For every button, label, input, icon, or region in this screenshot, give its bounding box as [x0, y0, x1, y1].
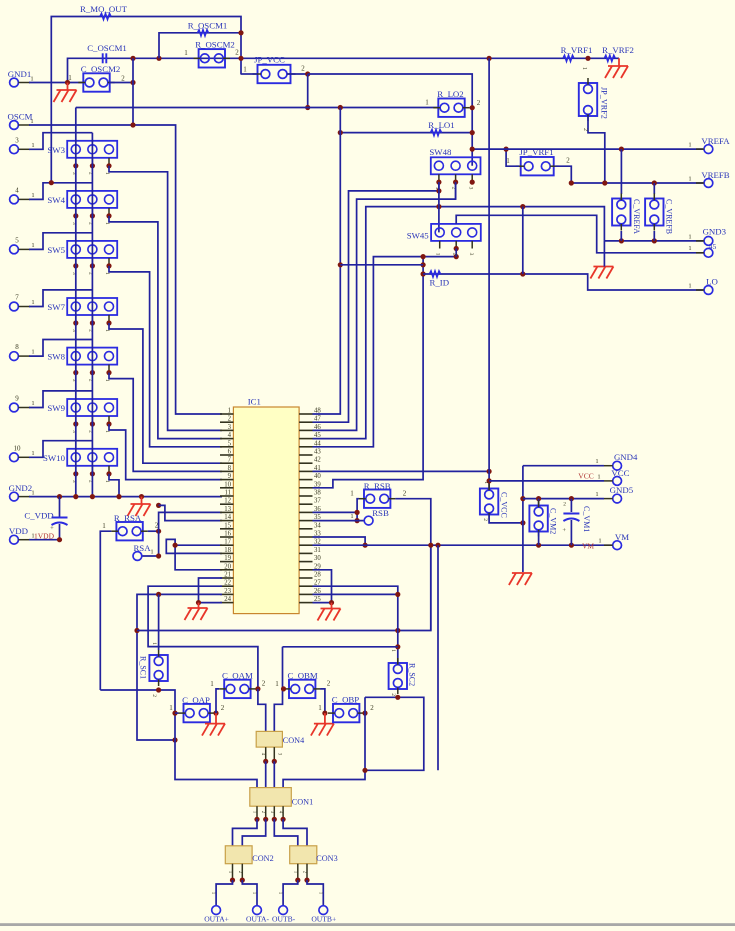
wire C_OSCM2 pin2 — [109, 82, 133, 84]
label CON2 pin marks — [227, 871, 242, 874]
wire VREFA net — [472, 148, 703, 150]
resistor C_OSCM2 — [68, 64, 125, 92]
label CON1 pin marks — [252, 811, 283, 814]
svg-text:VDD: VDD — [9, 526, 28, 536]
svg-text:1: 1 — [688, 245, 691, 252]
wire SW9 pad stubs — [76, 416, 109, 424]
svg-text:13: 13 — [224, 506, 231, 513]
svg-text:SW3: SW3 — [47, 145, 65, 155]
wire OUTB+ net — [307, 880, 323, 906]
pin 3 — [10, 136, 35, 153]
svg-text:2: 2 — [403, 490, 407, 498]
capacitor C_VM2 — [529, 499, 557, 546]
svg-text:2: 2 — [566, 157, 570, 165]
wire SW pad2 bus — [91, 133, 93, 497]
pin OSCM — [8, 112, 34, 130]
svg-text:1: 1 — [597, 474, 600, 481]
node pin41 junction — [487, 469, 492, 474]
capacitor C_VCC — [480, 481, 509, 521]
wire SW45 pad2 up link — [456, 215, 703, 253]
svg-text:OUTB-: OUTB- — [272, 915, 296, 924]
svg-text:1: 1 — [350, 513, 353, 520]
svg-text:1: 1 — [169, 704, 173, 712]
resistor R_MO_OUT — [80, 4, 128, 20]
svg-text:28: 28 — [314, 572, 321, 579]
svg-text:GND2: GND2 — [9, 483, 32, 493]
node VREFA junctions — [470, 147, 624, 152]
wire pin 10 to SW10 — [29, 441, 92, 458]
svg-text:1: 1 — [184, 49, 188, 57]
node C_OAP pin2 junction — [213, 711, 218, 716]
switch SW48 — [429, 147, 480, 174]
ground GND2 — [128, 497, 151, 516]
svg-text:1: 1 — [688, 283, 691, 290]
wire OUTA- net — [242, 880, 257, 906]
wire SW45 pad2 tail — [455, 249, 457, 257]
svg-text:R_SC2: R_SC2 — [408, 663, 417, 686]
svg-text:1: 1 — [68, 74, 72, 82]
switch SW45 — [407, 224, 481, 241]
wire OUTB- net — [283, 880, 298, 906]
svg-text:1: 1 — [688, 234, 691, 241]
svg-text:R_VRF2: R_VRF2 — [602, 45, 634, 55]
wire SW5 pad stubs — [76, 258, 109, 266]
svg-text:1VDD: 1VDD — [34, 531, 55, 540]
svg-text:4: 4 — [15, 186, 19, 194]
wire GND1 to C_OSCM2 — [29, 82, 84, 84]
node R_LO1 tap junction — [338, 105, 343, 110]
label SW4 pad numbers — [71, 222, 110, 225]
wire GND2 to IC pin11 — [29, 496, 222, 498]
svg-text:30: 30 — [314, 555, 321, 562]
svg-text:1: 1 — [31, 192, 34, 199]
wire C_OAM to CON4 left — [258, 689, 266, 732]
svg-text:1: 1 — [595, 491, 598, 498]
svg-text:C_VCC: C_VCC — [500, 492, 509, 518]
node R_ID tap junction — [338, 262, 343, 267]
svg-text:31: 31 — [314, 547, 321, 554]
node CON1 bottom junctions — [254, 817, 285, 822]
svg-text:C_VREFA: C_VREFA — [632, 199, 641, 234]
svg-text:2: 2 — [370, 704, 374, 712]
svg-text:R_ID: R_ID — [430, 278, 450, 288]
node R_RSA pin2 junction — [156, 529, 161, 534]
svg-text:C_OBM: C_OBM — [287, 671, 317, 681]
node right chain junction — [362, 768, 367, 773]
svg-text:CON1: CON1 — [292, 798, 313, 807]
pin 9 — [10, 395, 35, 412]
node C_OAM pin2 junction — [255, 686, 260, 691]
svg-text:SW5: SW5 — [47, 245, 65, 255]
svg-text:1: 1 — [275, 680, 279, 688]
wire C_OBM pin2 drop — [320, 689, 325, 713]
node SW7 pad junctions — [73, 320, 111, 325]
svg-text:2: 2 — [262, 680, 266, 688]
wire VDD net — [29, 539, 60, 541]
svg-text:1: 1 — [31, 490, 34, 497]
svg-text:1: 1 — [30, 76, 33, 83]
svg-text:CON3: CON3 — [316, 854, 337, 863]
svg-text:2: 2 — [301, 65, 305, 73]
wire IC pin33 wire — [313, 537, 366, 545]
capacitor C_OBP — [318, 695, 374, 723]
wire LO1 bus y107 — [76, 107, 439, 109]
pin VCC — [597, 468, 629, 485]
wire R_RSA pin2 net — [148, 530, 159, 532]
pin 5 — [10, 236, 35, 253]
svg-text:16: 16 — [224, 531, 231, 538]
wire GND3 net — [604, 240, 703, 242]
svg-text:12: 12 — [224, 498, 231, 505]
wire IC pin46 net — [313, 182, 456, 430]
svg-text:1: 1 — [31, 349, 34, 356]
svg-text:SW9: SW9 — [47, 403, 65, 413]
label VM red — [582, 542, 594, 551]
svg-text:2: 2 — [228, 416, 232, 423]
svg-text:1: 1 — [318, 704, 322, 712]
wire SW5 pad3 to IC pin 5 — [109, 266, 222, 447]
node R_SC2 pin2 junction — [395, 695, 400, 700]
svg-text:3: 3 — [468, 253, 474, 256]
svg-text:CON4: CON4 — [283, 736, 304, 745]
wire vertical x133 — [132, 58, 134, 125]
wire IC pin45 net — [313, 207, 605, 439]
node SW48 pad junctions — [436, 180, 475, 185]
wire below-IC bus y630 — [137, 545, 431, 630]
svg-text:1: 1 — [31, 450, 34, 457]
pin LO — [688, 277, 717, 295]
wire SW pad1 bus — [75, 108, 77, 497]
wire R_SC1 pin2 net — [100, 690, 257, 788]
svg-text:OUTA-: OUTA- — [246, 915, 269, 924]
wire GND4 rail — [522, 466, 524, 572]
wire GND4 net — [523, 465, 604, 467]
node pin33 junction — [363, 543, 368, 548]
pin GND2 — [9, 483, 35, 501]
svg-text:38: 38 — [314, 490, 321, 497]
wire SW7 pad stubs — [76, 315, 109, 323]
resistor R_VRF2 — [602, 45, 634, 61]
wire IC pin26 wire — [313, 593, 398, 595]
svg-text:GND4: GND4 — [614, 452, 638, 462]
capacitor C_VREFB — [645, 183, 674, 241]
capacitor C_VREFA — [612, 149, 641, 241]
node R_LO1 junctions — [338, 130, 475, 135]
svg-text:R_LO2: R_LO2 — [437, 89, 463, 99]
svg-text:VM: VM — [582, 542, 594, 551]
svg-text:9: 9 — [15, 395, 19, 403]
svg-text:43: 43 — [314, 449, 321, 456]
svg-text:R_VRF1: R_VRF1 — [561, 45, 593, 55]
node SW4 pad junctions — [73, 213, 111, 218]
svg-text:LO: LO — [706, 277, 718, 287]
wire R_ID feed — [340, 264, 423, 266]
label SW48 pad numbers — [434, 187, 473, 190]
sheet bottom border — [0, 923, 735, 926]
svg-text:34: 34 — [314, 522, 321, 529]
svg-text:VCC: VCC — [578, 472, 593, 481]
jumper JP_VRF1 — [506, 147, 570, 175]
node CON2 junctions — [230, 878, 245, 883]
svg-text:10: 10 — [14, 444, 22, 452]
node SW10 pad junctions — [73, 471, 111, 476]
wire IC pin44 net — [313, 257, 457, 447]
svg-text:1: 1 — [595, 458, 598, 465]
wire GND5 net — [523, 498, 604, 500]
svg-text:C_VDD: C_VDD — [24, 511, 53, 521]
svg-text:R_SC1: R_SC1 — [139, 656, 148, 679]
wire SW4 pad stubs — [76, 208, 109, 216]
resistor R_OSCM1 — [188, 21, 228, 36]
wire SW7 pad3 to IC pin 7 — [109, 323, 222, 463]
resistor R_RSA — [102, 513, 159, 540]
connector CON2 — [225, 846, 273, 864]
wire IC pin23 net — [137, 594, 222, 740]
capacitor C_OBM — [275, 671, 331, 699]
wire x489 VCC rail — [488, 58, 490, 490]
svg-text:6: 6 — [228, 449, 232, 456]
label 1VDD red — [34, 531, 55, 540]
node C_OBM pin1 junction — [281, 686, 286, 691]
switch SW3 — [47, 141, 117, 158]
wire SW8 pad stubs — [76, 365, 109, 373]
wire R_RSB pin2 net — [395, 499, 430, 631]
wire VM chain right — [437, 545, 439, 770]
svg-text:2: 2 — [390, 693, 396, 696]
wire C_OAM pin2 wire — [256, 688, 258, 690]
svg-text:1: 1 — [228, 408, 231, 415]
node C_OSCM2 pin2 junction — [130, 80, 135, 85]
wire IC pin39 net — [313, 257, 424, 488]
svg-text:4: 4 — [228, 432, 232, 439]
svg-text:1: 1 — [243, 66, 247, 74]
svg-text:VREFB: VREFB — [701, 170, 729, 180]
wire SW10 pad3 to GND2 net — [109, 474, 119, 497]
svg-text:2: 2 — [151, 694, 157, 697]
resistor R_VRF1 — [561, 45, 593, 61]
svg-text:22: 22 — [224, 580, 231, 587]
svg-text:24: 24 — [224, 596, 231, 603]
wire IC pin32 VM net — [313, 544, 614, 546]
svg-text:2: 2 — [121, 75, 125, 83]
jumper JP_VCC — [243, 55, 305, 84]
svg-text:21: 21 — [224, 572, 231, 579]
node R_SC1 junctions — [156, 687, 161, 692]
svg-text:11: 11 — [224, 490, 231, 497]
node OSCM junction — [130, 122, 135, 127]
svg-text:5: 5 — [15, 236, 19, 244]
wire SW8 pad3 to IC pin 8 — [109, 373, 222, 472]
wire CON1 to CON2 right — [242, 819, 265, 846]
pin VREFB — [688, 170, 729, 187]
node R_ID junction — [520, 271, 525, 276]
node R_MO_OUT tap junction — [49, 180, 54, 185]
wire CON4 bottom stubs — [266, 747, 275, 761]
capacitor C_VM1 — [562, 499, 590, 546]
capacitor C_OSCM1 — [87, 43, 127, 63]
wire CON1 to CON3 right — [283, 819, 307, 846]
node JP_VRF1 junction — [504, 147, 509, 152]
pin VDD — [9, 526, 35, 544]
svg-text:OUTB+: OUTB+ — [311, 915, 336, 924]
wire C_OBM pin1 net — [283, 646, 398, 648]
pin GND4 — [595, 452, 638, 470]
node C_OSCM1 junctions — [130, 56, 590, 61]
wire CON3 bottom stubs — [298, 864, 307, 880]
svg-text:1: 1 — [483, 481, 489, 484]
svg-text:RSA: RSA — [133, 543, 151, 553]
svg-text:1: 1 — [210, 680, 214, 688]
wire CON4 to CON1 — [266, 761, 275, 787]
ground C_OAP — [202, 713, 225, 736]
node C_OBP pin2 net junction — [362, 711, 367, 716]
ground IC pin25 — [318, 603, 341, 621]
svg-text:GND1: GND1 — [8, 69, 31, 79]
wire JP_VCC down to LO1 bus — [307, 74, 309, 108]
wire C_OAP pin2 wire — [215, 712, 216, 714]
svg-text:17: 17 — [224, 539, 231, 546]
wire R_LO1 net — [340, 132, 472, 134]
connector CON1 — [250, 788, 313, 807]
wire OSCM to IC pin1 bus — [29, 125, 222, 414]
svg-text:18: 18 — [224, 547, 231, 554]
svg-text:1: 1 — [688, 176, 691, 183]
wire R_ID net — [423, 274, 703, 290]
svg-text:GND5: GND5 — [610, 485, 634, 495]
wire IC pin17 pin18 pin20 chain — [166, 539, 222, 569]
jumper JP_VRF2 — [579, 67, 609, 121]
node JP_VRF2 tiny mark — [582, 128, 588, 131]
label SW7 pad numbers — [71, 329, 110, 332]
wire VCC net — [489, 480, 604, 482]
svg-text:SW45: SW45 — [407, 231, 430, 241]
svg-text:C_VREFB: C_VREFB — [665, 199, 674, 234]
svg-text:R_LO1: R_LO1 — [428, 120, 454, 130]
svg-text:1: 1 — [30, 118, 33, 125]
svg-text:C_VM2: C_VM2 — [549, 508, 558, 534]
node GND1 junction — [65, 80, 70, 85]
node GND3 junctions — [619, 238, 657, 243]
svg-text:JP_VCC: JP_VCC — [254, 55, 285, 65]
wire OSC feedback riser — [159, 33, 241, 59]
label SW3 pad numbers — [71, 172, 110, 175]
wire JP_VRF2 pin2 to VREFB — [588, 116, 605, 183]
svg-text:15: 15 — [224, 522, 231, 529]
wire CON2 bottom stubs — [233, 864, 243, 880]
wire right chain — [283, 697, 365, 787]
svg-text:3: 3 — [467, 187, 473, 190]
pin OUTA+ — [204, 892, 229, 924]
wire SW48 pad stubs — [439, 174, 472, 182]
svg-text:2: 2 — [482, 518, 488, 521]
svg-text:GND3: GND3 — [703, 227, 727, 237]
wire C_VCC pin2 gnd — [489, 515, 523, 523]
wire CON1 to CON2 left — [233, 819, 258, 846]
svg-text:40: 40 — [314, 473, 321, 480]
node SW45 pad2 junctions — [454, 246, 459, 259]
svg-text:+: + — [562, 527, 566, 534]
node SW8 pad junctions — [73, 370, 111, 375]
wire IC pin41 net — [313, 470, 490, 472]
pin 7 — [10, 294, 35, 311]
svg-text:VREFA: VREFA — [701, 136, 730, 146]
node C_OBP pin1 junction — [322, 711, 327, 716]
wire VREFB net — [571, 182, 703, 184]
node pin25 junction — [329, 600, 334, 605]
wire LO drop — [522, 207, 524, 274]
svg-text:JP_VRF2: JP_VRF2 — [600, 87, 609, 119]
svg-text:R_OSCM1: R_OSCM1 — [188, 21, 228, 31]
svg-text:1: 1 — [390, 649, 396, 652]
wire IC pin14 link — [159, 505, 222, 520]
wire IC pin17 stub wire — [175, 544, 222, 546]
pin OUTA- — [246, 892, 269, 924]
wire VCC link to R_LO2 drop — [308, 74, 473, 166]
svg-text:OUTA+: OUTA+ — [204, 915, 229, 924]
wire pin 3 to SW3 — [29, 133, 92, 150]
wire R_MO_OUT net top — [51, 17, 241, 183]
svg-text:2: 2 — [477, 99, 481, 107]
svg-text:SW4: SW4 — [47, 195, 65, 205]
svg-text:1: 1 — [102, 522, 106, 530]
label VCC red — [578, 472, 593, 481]
wire JP_VCC pin1 riser — [241, 73, 257, 75]
wire R_RSA pin1 down — [100, 531, 111, 690]
wire JP_VRF1 pin2 drop — [555, 166, 571, 183]
label SW10 pad numbers — [71, 480, 110, 483]
svg-text:2: 2 — [235, 49, 239, 57]
wire C_OBM pin1 drop — [274, 647, 282, 732]
wire C_OSCM1 net — [68, 58, 620, 82]
svg-text:SW48: SW48 — [429, 147, 452, 157]
svg-text:RSB: RSB — [372, 508, 389, 518]
wire IC pin29 wire — [313, 570, 332, 603]
wire SW48 pad2 drop — [455, 182, 457, 199]
wire JP_VRF1 pin1 riser — [506, 149, 519, 166]
pin 10 — [10, 444, 35, 461]
resistor R_SC1 — [139, 594, 168, 697]
label SW8 pad numbers — [71, 379, 110, 382]
svg-text:IC1: IC1 — [248, 397, 261, 407]
wire CON1 to CON3 left — [274, 819, 298, 846]
svg-text:7: 7 — [228, 457, 232, 464]
wire pin 4 to SW4 — [29, 183, 92, 200]
svg-text:5: 5 — [228, 440, 232, 447]
wire IC pin35 wire — [313, 520, 365, 522]
wire IC pin27 wire — [313, 586, 398, 662]
svg-text:R_RSB: R_RSB — [364, 481, 391, 491]
svg-text:C_VM1: C_VM1 — [582, 506, 591, 532]
svg-text:R_OSCM2: R_OSCM2 — [195, 40, 235, 50]
pin OUTB+ — [311, 892, 336, 924]
connector CON3 — [290, 846, 338, 864]
ground C_OBP — [311, 713, 334, 736]
node C_OAP pin1 junction — [172, 711, 177, 716]
svg-text:20: 20 — [224, 563, 231, 570]
svg-text:8: 8 — [228, 465, 232, 472]
svg-text:7: 7 — [15, 294, 19, 302]
resistor R_LO2 — [425, 89, 481, 117]
wire SW10 pad stubs — [76, 466, 109, 474]
svg-text:1: 1 — [31, 242, 34, 249]
svg-text:R_MO_OUT: R_MO_OUT — [80, 4, 128, 14]
wire SW9 pad3 to IC pin 9 — [109, 424, 222, 480]
svg-text:1: 1 — [151, 642, 157, 645]
svg-text:R_RSA: R_RSA — [114, 513, 142, 523]
svg-text:3: 3 — [15, 136, 19, 144]
label CON3 pin marks — [292, 871, 306, 874]
wire IC pin36 wire — [313, 511, 358, 513]
